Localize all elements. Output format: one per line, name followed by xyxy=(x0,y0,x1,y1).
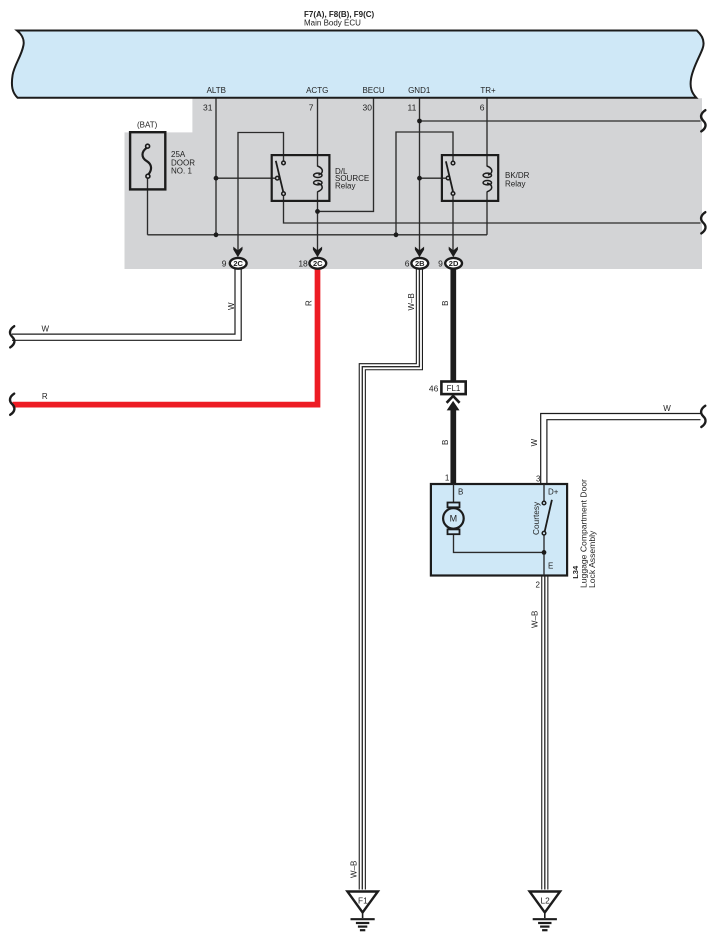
wire BK/DR coil bottom to bus xyxy=(486,192,488,235)
svg-text:W: W xyxy=(227,302,236,310)
svg-text:L2: L2 xyxy=(540,896,550,906)
svg-text:W–B: W–B xyxy=(531,611,540,628)
break symbol left R wire xyxy=(10,394,14,415)
svg-text:E: E xyxy=(548,562,553,571)
svg-text:(BAT): (BAT) xyxy=(137,121,158,130)
luggage compartment door lock assembly box L34 xyxy=(431,484,567,576)
lock internal wire D+ to switch xyxy=(543,484,545,501)
svg-text:3: 3 xyxy=(536,475,541,484)
svg-text:2D: 2D xyxy=(449,259,459,268)
ground L2 xyxy=(530,892,561,931)
svg-text:Relay: Relay xyxy=(505,179,525,188)
relay D/L coil xyxy=(314,166,323,192)
Main Body ECU band xyxy=(12,31,704,98)
fusible link FL1 xyxy=(441,382,465,395)
relay D/L SOURCE box xyxy=(272,155,330,201)
svg-text:18: 18 xyxy=(298,258,308,268)
svg-text:7: 7 xyxy=(309,103,314,113)
junction dot at lock switch/motor xyxy=(542,550,547,555)
wire W from connector 2C pin 9 to left break xyxy=(12,265,238,337)
svg-text:TR+: TR+ xyxy=(480,86,496,95)
ground F1 xyxy=(347,892,378,931)
ECU title F7(A), F8(B), F9(C) Main Body ECU xyxy=(304,10,375,27)
relay BK/DR box xyxy=(442,155,498,201)
wire BK/DR switch bottom to connector 2D pin 9 xyxy=(452,195,454,251)
relay D/L label xyxy=(335,167,369,191)
ECU internal gray area xyxy=(125,98,703,269)
svg-text:NO. 1: NO. 1 xyxy=(171,167,192,176)
wire TR+ pin 6 vertical into BK/DR relay coil xyxy=(486,98,488,167)
svg-text:46: 46 xyxy=(429,383,439,393)
svg-text:W: W xyxy=(530,438,539,446)
relay BK/DR coil xyxy=(483,166,492,192)
wire B from FL1 to luggage door lock xyxy=(450,406,456,484)
svg-text:FL1: FL1 xyxy=(447,384,461,393)
svg-text:2: 2 xyxy=(536,581,541,590)
connector oval 2C pin 9 xyxy=(230,258,247,269)
svg-text:9: 9 xyxy=(222,258,227,268)
wire B from connector 2D pin 9 to fusible link FL1 xyxy=(450,265,456,382)
connector arrow 2D pin 9 xyxy=(449,247,458,258)
svg-text:W: W xyxy=(663,404,671,413)
courtesy switch xyxy=(542,500,552,535)
svg-text:6: 6 xyxy=(405,258,410,268)
junction dot ALTB/relay xyxy=(214,176,219,181)
svg-text:9: 9 xyxy=(438,258,443,268)
connector arrow 2C pin 9 xyxy=(233,247,242,258)
wire D/L relay coil bottom to connector 2C pin 18 xyxy=(317,192,319,252)
connector arrow 2C pin 18 xyxy=(313,247,322,258)
wire battery bus y=234.8 xyxy=(148,234,488,236)
svg-text:11: 11 xyxy=(407,103,416,113)
fuse value label 25A DOOR NO. 1 xyxy=(171,150,195,176)
relay D/L switch xyxy=(276,161,286,196)
wire fuse output xyxy=(147,178,149,235)
svg-text:ACTG: ACTG xyxy=(306,86,328,95)
svg-text:Main Body ECU: Main Body ECU xyxy=(304,18,361,27)
lock internal wire B to motor xyxy=(453,484,455,503)
connector arrow 2B pin 6 xyxy=(415,247,424,258)
wire D/L switch bottom to right break xyxy=(284,195,701,223)
svg-text:1: 1 xyxy=(445,474,450,483)
wire W-B from luggage door lock pin 2 to ground L2 xyxy=(541,575,548,890)
svg-text:6: 6 xyxy=(480,103,485,113)
junction dot GND1/right bus xyxy=(417,119,422,124)
wire R from connector 2C pin 18 to left break xyxy=(13,265,318,405)
junction dot bus/BKDR switch-top path xyxy=(394,232,399,237)
wire ALTB pin 31 vertical xyxy=(215,98,217,235)
connector oval 2B pin 6 xyxy=(411,258,428,269)
svg-text:R: R xyxy=(42,392,48,401)
svg-text:2C: 2C xyxy=(313,259,323,268)
break symbol left W wire xyxy=(10,326,14,347)
svg-text:GND1: GND1 xyxy=(408,86,431,95)
connector oval 2C pin 18 xyxy=(309,258,326,269)
wire GND1 to BK/DR relay switch contact xyxy=(420,177,447,179)
wire W from luggage door lock to right break xyxy=(544,417,701,484)
svg-text:M: M xyxy=(450,514,458,524)
wire GND1 pin 11 vertical to connector 2B xyxy=(419,98,421,251)
junction dot GND1/BKDR switch xyxy=(417,176,422,181)
wire GND1 bus to right break xyxy=(420,120,701,122)
wire W-B from connector 2B pin 6 to ground F1 xyxy=(362,265,419,890)
lock internal wire switch to E pin 2 xyxy=(543,535,545,576)
wire ALTB to D/L relay switch contact xyxy=(216,177,276,179)
motor M xyxy=(443,503,464,535)
junction dot D/L coil/BECU/2C18 xyxy=(315,209,320,214)
svg-text:ALTB: ALTB xyxy=(207,86,226,95)
svg-text:Courtesy: Courtesy xyxy=(531,501,541,535)
svg-text:B: B xyxy=(458,488,463,497)
relay BK/DR label xyxy=(505,171,530,188)
connector oval 2D pin 9 xyxy=(445,258,462,269)
junction dot ALTB/bus xyxy=(214,232,219,237)
svg-text:BECU: BECU xyxy=(362,86,384,95)
svg-text:30: 30 xyxy=(363,103,373,113)
svg-text:B: B xyxy=(441,440,450,445)
fuse 25A DOOR NO.1 box xyxy=(130,132,165,189)
wire BK/DR switch top contact to bus junction xyxy=(396,132,453,235)
lock internal wire motor to switch junction xyxy=(454,534,545,552)
svg-text:W–B: W–B xyxy=(350,861,359,878)
svg-text:2B: 2B xyxy=(415,259,425,268)
svg-text:F1: F1 xyxy=(358,896,368,906)
svg-text:B: B xyxy=(441,300,450,305)
svg-text:Relay: Relay xyxy=(335,181,355,190)
wire BECU pin 30 vertical and link to coil junction xyxy=(318,98,374,211)
svg-text:Lock Assembly: Lock Assembly xyxy=(587,530,597,588)
svg-text:W–B: W–B xyxy=(407,293,416,310)
relay BK/DR switch xyxy=(446,161,455,195)
svg-text:W: W xyxy=(42,325,50,334)
break symbol right GND1 bus xyxy=(701,110,705,131)
svg-text:R: R xyxy=(304,300,313,306)
wire ACTG pin 7 vertical into D/L relay coil xyxy=(317,98,319,167)
break symbol right y223 bus xyxy=(701,212,705,233)
wire D/L switch top contact to connector 2C pin 9 xyxy=(238,133,284,252)
break symbol right W wire xyxy=(701,406,705,427)
svg-text:D+: D+ xyxy=(548,488,559,497)
svg-text:31: 31 xyxy=(203,103,213,113)
svg-text:2C: 2C xyxy=(233,259,243,268)
double chevron arrows below FL1 xyxy=(447,396,460,410)
